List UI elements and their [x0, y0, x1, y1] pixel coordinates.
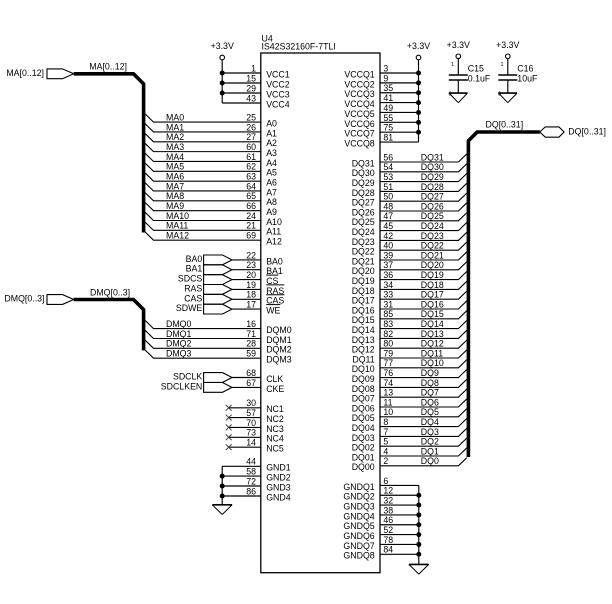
- svg-text:SDWE: SDWE: [176, 303, 203, 313]
- svg-text:IS42S32160F-7TLI: IS42S32160F-7TLI: [262, 42, 336, 52]
- svg-text:59: 59: [246, 349, 256, 359]
- svg-text:30: 30: [246, 398, 256, 408]
- pin 1 VCC1 wire: [220, 63, 290, 79]
- pin 59 DQM3 / net DMQ3 wire: [145, 349, 292, 365]
- svg-text:GNDQ2: GNDQ2: [343, 492, 374, 502]
- svg-text:DQ27: DQ27: [421, 192, 444, 202]
- svg-text:MA[0..12]: MA[0..12]: [89, 61, 127, 71]
- svg-text:MA[0..12]: MA[0..12]: [6, 68, 44, 78]
- svg-text:A11: A11: [266, 227, 281, 237]
- svg-text:DMQ[0..3]: DMQ[0..3]: [4, 294, 44, 304]
- power +3.3V symbol (C16): [496, 40, 519, 59]
- svg-text:DQ4: DQ4: [421, 417, 439, 427]
- svg-text:VCCQ5: VCCQ5: [344, 109, 374, 119]
- svg-text:A12: A12: [266, 237, 282, 247]
- pin 31 DQ16 / net DQ16 wire: [352, 299, 467, 315]
- ground symbol (GNDQ pins): [409, 564, 429, 574]
- svg-text:DQM0: DQM0: [266, 325, 292, 335]
- bus label DQ[0..31]: [486, 119, 524, 129]
- pin 81 VCCQ8 wire: [344, 132, 418, 148]
- svg-text:46: 46: [383, 515, 393, 525]
- svg-text:MA10: MA10: [166, 211, 189, 221]
- pin 11 DQ06 / net DQ6 wire: [352, 397, 467, 413]
- pin 34 DQ18 / net DQ18 wire: [352, 280, 467, 296]
- svg-text:47: 47: [383, 211, 393, 221]
- svg-text:DQ29: DQ29: [421, 172, 444, 182]
- svg-text:A3: A3: [266, 148, 277, 158]
- pin 43 VCC4 wire: [222, 93, 290, 109]
- pin 26 A1 / net MA1 wire: [145, 122, 277, 138]
- svg-text:A2: A2: [266, 138, 277, 148]
- pin 32 GNDQ3 wire: [343, 495, 421, 511]
- svg-text:DQ18: DQ18: [421, 280, 444, 290]
- pin 10 DQ05 / net DQ5 wire: [352, 407, 467, 423]
- svg-text:DQ23: DQ23: [352, 237, 375, 247]
- svg-text:39: 39: [383, 250, 393, 260]
- svg-text:38: 38: [383, 505, 393, 515]
- svg-text:85: 85: [383, 309, 393, 319]
- svg-text:5: 5: [383, 437, 388, 447]
- svg-text:24: 24: [246, 211, 256, 221]
- svg-text:DMQ1: DMQ1: [166, 329, 192, 339]
- bus DMQ[0..3] thick wire: [74, 300, 144, 351]
- svg-text:DQ26: DQ26: [352, 207, 375, 217]
- wire GND vertical junction: [221, 466, 223, 505]
- svg-text:56: 56: [383, 152, 393, 162]
- svg-text:49: 49: [383, 103, 393, 113]
- svg-text:70: 70: [246, 418, 256, 428]
- svg-text:A7: A7: [266, 187, 277, 197]
- svg-text:A6: A6: [266, 178, 277, 188]
- svg-text:A1: A1: [266, 128, 277, 138]
- svg-text:DQ[0..31]: DQ[0..31]: [486, 119, 524, 129]
- svg-text:34: 34: [383, 280, 393, 290]
- pin 23 BA1 / net BA1 tag and wire: [186, 260, 283, 276]
- svg-text:NC2: NC2: [266, 414, 284, 424]
- svg-text:GND3: GND3: [266, 482, 291, 492]
- svg-text:DQM3: DQM3: [266, 355, 292, 365]
- svg-text:54: 54: [383, 162, 393, 172]
- svg-text:68: 68: [246, 368, 256, 378]
- pin 25 A0 / net MA0 wire: [145, 113, 277, 129]
- svg-text:10: 10: [383, 407, 393, 417]
- svg-text:DQ1: DQ1: [421, 446, 439, 456]
- pin 63 A6 / net MA6 wire: [145, 172, 277, 188]
- svg-text:A8: A8: [266, 197, 277, 207]
- svg-text:MA4: MA4: [166, 152, 184, 162]
- svg-text:DQ18: DQ18: [352, 286, 375, 296]
- svg-text:NC1: NC1: [266, 404, 284, 414]
- svg-text:DQ0: DQ0: [421, 456, 439, 466]
- pin 13 DQ07 / net DQ7 wire: [352, 388, 467, 404]
- svg-text:GNDQ7: GNDQ7: [343, 541, 374, 551]
- svg-text:44: 44: [246, 457, 256, 467]
- svg-text:MA1: MA1: [166, 122, 184, 132]
- svg-text:VCC3: VCC3: [266, 89, 290, 99]
- pin 73 NC4 wire with no-connect X: [226, 428, 284, 444]
- svg-text:DQ20: DQ20: [421, 260, 444, 270]
- svg-text:11: 11: [383, 397, 392, 407]
- svg-text:57: 57: [246, 408, 256, 418]
- svg-text:DQ19: DQ19: [421, 270, 444, 280]
- svg-text:84: 84: [383, 545, 393, 555]
- svg-text:DQ15: DQ15: [352, 315, 375, 325]
- svg-text:C16: C16: [517, 64, 533, 74]
- svg-text:DQ17: DQ17: [352, 296, 375, 306]
- svg-text:67: 67: [246, 378, 256, 388]
- svg-text:DQ14: DQ14: [352, 325, 375, 335]
- svg-text:6: 6: [383, 476, 388, 486]
- svg-text:8: 8: [383, 417, 388, 427]
- svg-text:DMQ3: DMQ3: [166, 349, 192, 359]
- svg-text:DQM2: DQM2: [266, 345, 292, 355]
- svg-text:VCCQ6: VCCQ6: [344, 119, 374, 129]
- svg-text:12: 12: [383, 486, 393, 496]
- svg-text:VCCQ8: VCCQ8: [344, 138, 374, 148]
- svg-text:15: 15: [246, 73, 256, 83]
- bus tag MA[0..12] (source): [6, 68, 73, 79]
- svg-text:DQ04: DQ04: [352, 423, 375, 433]
- pin 60 A3 / net MA3 wire: [145, 142, 277, 158]
- svg-text:DQ19: DQ19: [352, 276, 375, 286]
- pin 85 DQ15 / net DQ15 wire: [352, 309, 467, 325]
- pin 16 DQM0 / net DMQ0 wire: [145, 319, 292, 335]
- svg-text:81: 81: [383, 132, 393, 142]
- svg-text:VCC2: VCC2: [266, 79, 290, 89]
- pin 30 NC1 wire with no-connect X: [226, 398, 284, 414]
- pin 48 DQ26 / net DQ26 wire: [352, 201, 467, 217]
- pin 17 WE / net SDWE tag and wire: [176, 300, 281, 316]
- svg-text:DQ02: DQ02: [352, 443, 375, 453]
- pin 3 VCCQ1 wire: [344, 63, 421, 79]
- svg-text:BA0: BA0: [266, 256, 283, 266]
- svg-text:A4: A4: [266, 158, 277, 168]
- svg-text:1: 1: [451, 62, 454, 68]
- svg-text:32: 32: [383, 495, 393, 505]
- svg-text:13: 13: [383, 388, 393, 398]
- pin 68 CLK / net SDCLK tag and wire: [173, 368, 283, 384]
- svg-text:36: 36: [383, 270, 393, 280]
- svg-text:55: 55: [383, 113, 393, 123]
- svg-text:14: 14: [246, 438, 256, 448]
- svg-text:A10: A10: [266, 217, 282, 227]
- svg-text:37: 37: [383, 260, 393, 270]
- pin 36 DQ19 / net DQ19 wire: [352, 270, 467, 286]
- svg-text:52: 52: [383, 525, 393, 535]
- svg-text:DQ13: DQ13: [352, 335, 375, 345]
- svg-text:CAS: CAS: [184, 293, 202, 303]
- svg-text:51: 51: [383, 182, 393, 192]
- svg-text:DQ21: DQ21: [352, 256, 375, 266]
- svg-text:75: 75: [383, 123, 393, 133]
- pin 24 A10 / net MA10 wire: [145, 211, 282, 227]
- pin 38 GNDQ4 wire: [343, 505, 421, 521]
- svg-text:80: 80: [383, 339, 393, 349]
- svg-text:23: 23: [246, 260, 256, 270]
- svg-text:DQ24: DQ24: [352, 227, 375, 237]
- svg-text:DQ3: DQ3: [421, 427, 439, 437]
- svg-text:17: 17: [246, 300, 256, 310]
- svg-text:18: 18: [246, 290, 256, 300]
- svg-text:GNDQ8: GNDQ8: [343, 551, 374, 561]
- pin 41 VCCQ4 wire: [344, 93, 421, 109]
- svg-text:DQ26: DQ26: [421, 201, 444, 211]
- capacitor C15 0.1uF: [449, 59, 491, 94]
- svg-text:45: 45: [383, 221, 393, 231]
- pin 80 DQ12 / net DQ12 wire: [352, 339, 467, 355]
- svg-text:60: 60: [246, 142, 256, 152]
- pin 86 GND4 wire: [220, 486, 291, 502]
- svg-text:DQ07: DQ07: [352, 394, 375, 404]
- power +3.3V symbol (VCC): [211, 41, 234, 60]
- svg-text:+3.3V: +3.3V: [407, 41, 430, 51]
- svg-text:DQ21: DQ21: [421, 250, 444, 260]
- svg-text:DQ7: DQ7: [421, 388, 439, 398]
- pin 39 DQ21 / net DQ21 wire: [352, 250, 467, 266]
- svg-text:DQ10: DQ10: [421, 358, 444, 368]
- svg-text:73: 73: [246, 428, 256, 438]
- svg-text:DQ31: DQ31: [352, 158, 375, 168]
- pin 72 GND3 wire: [220, 476, 291, 492]
- svg-text:86: 86: [246, 486, 256, 496]
- svg-text:GNDQ3: GNDQ3: [343, 501, 374, 511]
- svg-text:27: 27: [246, 132, 256, 142]
- svg-text:0.1uF: 0.1uF: [468, 73, 491, 83]
- pin 40 DQ22 / net DQ22 wire: [352, 241, 467, 257]
- wire +3.3V vertical to VCCQ pins: [418, 60, 420, 142]
- svg-text:CLK: CLK: [266, 374, 283, 384]
- pin 55 VCCQ6 wire: [344, 113, 421, 129]
- power +3.3V symbol (VCCQ): [407, 41, 430, 60]
- pin 47 DQ25 / net DQ25 wire: [352, 211, 467, 227]
- svg-text:10uF: 10uF: [517, 73, 538, 83]
- svg-text:VCCQ7: VCCQ7: [344, 129, 374, 139]
- svg-text:+3.3V: +3.3V: [211, 41, 234, 51]
- svg-text:DQ24: DQ24: [421, 221, 444, 231]
- svg-text:3: 3: [383, 63, 388, 73]
- svg-text:DQ16: DQ16: [352, 305, 375, 315]
- ground symbol (C16) / net 0: [498, 91, 517, 102]
- pin 12 GNDQ2 wire: [343, 486, 421, 502]
- pin 27 A2 / net MA2 wire: [145, 132, 277, 148]
- svg-text:43: 43: [246, 93, 256, 103]
- pin 69 A12 / net MA12 wire: [145, 231, 282, 247]
- svg-text:MA0: MA0: [166, 113, 184, 123]
- svg-text:DQ11: DQ11: [352, 354, 374, 364]
- svg-text:GND1: GND1: [266, 463, 291, 473]
- svg-text:DQ9: DQ9: [421, 368, 439, 378]
- svg-text:DQ11: DQ11: [421, 348, 443, 358]
- svg-text:DMQ2: DMQ2: [166, 339, 192, 349]
- pin 83 DQ14 / net DQ14 wire: [352, 319, 467, 335]
- svg-text:83: 83: [383, 319, 393, 329]
- svg-text:+3.3V: +3.3V: [447, 40, 470, 50]
- svg-text:DQ05: DQ05: [352, 413, 375, 423]
- svg-text:DQ06: DQ06: [352, 403, 375, 413]
- svg-text:DQ5: DQ5: [421, 407, 439, 417]
- svg-text:26: 26: [246, 122, 256, 132]
- pin 77 DQ10 / net DQ10 wire: [352, 358, 467, 374]
- svg-text:MA3: MA3: [166, 142, 184, 152]
- svg-text:1: 1: [251, 63, 256, 73]
- svg-text:SDCS: SDCS: [178, 274, 203, 284]
- pin 9 VCCQ2 wire: [344, 73, 421, 89]
- pin 44 GND1 wire: [222, 457, 291, 473]
- svg-text:DQ15: DQ15: [421, 309, 444, 319]
- pin 35 VCCQ3 wire: [344, 83, 421, 99]
- svg-text:DQ6: DQ6: [421, 397, 439, 407]
- pin 8 DQ04 / net DQ4 wire: [352, 417, 467, 433]
- pin 50 DQ27 / net DQ27 wire: [352, 192, 467, 208]
- svg-text:GNDQ6: GNDQ6: [343, 531, 374, 541]
- svg-text:78: 78: [383, 535, 393, 545]
- pin 28 DQM2 / net DMQ2 wire: [145, 339, 292, 355]
- IC U4 IS42S32160F-7TLI body: [261, 34, 380, 573]
- svg-text:42: 42: [383, 231, 393, 241]
- svg-text:SDCLK: SDCLK: [173, 372, 202, 382]
- pin 4 DQ01 / net DQ1 wire: [352, 446, 467, 462]
- svg-text:VCCQ2: VCCQ2: [344, 79, 374, 89]
- svg-text:9: 9: [383, 73, 388, 83]
- pin 53 DQ29 / net DQ29 wire: [352, 172, 467, 188]
- svg-text:20: 20: [246, 270, 256, 280]
- svg-text:DQ16: DQ16: [421, 299, 444, 309]
- pin 51 DQ28 / net DQ28 wire: [352, 182, 467, 198]
- pin 18 CAS / net CAS tag and wire: [184, 290, 284, 306]
- pin 42 DQ23 / net DQ23 wire: [352, 231, 467, 247]
- svg-text:DQ09: DQ09: [352, 374, 375, 384]
- svg-text:DQ25: DQ25: [421, 211, 444, 221]
- pin 5 DQ02 / net DQ2 wire: [352, 437, 467, 453]
- svg-text:DQ01: DQ01: [352, 452, 375, 462]
- svg-text:76: 76: [383, 368, 393, 378]
- svg-text:DQ30: DQ30: [421, 162, 444, 172]
- svg-text:MA7: MA7: [166, 181, 184, 191]
- svg-text:33: 33: [383, 290, 393, 300]
- svg-text:DQ28: DQ28: [352, 188, 375, 198]
- svg-text:MA8: MA8: [166, 191, 184, 201]
- svg-text:DQ22: DQ22: [421, 241, 444, 251]
- svg-text:NC4: NC4: [266, 434, 284, 444]
- svg-text:RAS: RAS: [184, 283, 202, 293]
- pin 75 VCCQ7 wire: [344, 123, 421, 139]
- svg-text:63: 63: [246, 172, 256, 182]
- svg-text:DQ03: DQ03: [352, 433, 375, 443]
- svg-text:DQ12: DQ12: [352, 345, 375, 355]
- svg-text:BA0: BA0: [186, 254, 203, 264]
- svg-text:MA12: MA12: [166, 231, 189, 241]
- svg-text:71: 71: [246, 329, 256, 339]
- svg-text:NC5: NC5: [266, 444, 284, 454]
- svg-text:7: 7: [383, 427, 388, 437]
- svg-text:WE: WE: [266, 306, 280, 316]
- pin 67 CKE / net SDCLKEN tag and wire: [161, 378, 285, 394]
- pin 2 DQ00 / net DQ0 wire: [352, 456, 467, 472]
- pin 20 CS / net SDCS tag and wire: [178, 270, 279, 286]
- svg-text:DQ12: DQ12: [421, 339, 444, 349]
- svg-text:DQ17: DQ17: [421, 290, 444, 300]
- wire +3.3V vertical to VCC pins: [221, 60, 223, 103]
- svg-text:2: 2: [383, 456, 388, 466]
- pin 82 DQ13 / net DQ13 wire: [352, 329, 467, 345]
- ground symbol (GND pins): [212, 505, 232, 515]
- pin 29 VCC3 wire: [220, 83, 290, 99]
- svg-text:35: 35: [383, 83, 393, 93]
- svg-text:25: 25: [246, 113, 256, 123]
- svg-text:BA1: BA1: [186, 264, 203, 274]
- svg-text:DQ23: DQ23: [421, 231, 444, 241]
- svg-text:MA6: MA6: [166, 172, 184, 182]
- svg-text:SDCLKEN: SDCLKEN: [161, 381, 203, 391]
- svg-text:GND2: GND2: [266, 473, 291, 483]
- svg-text:50: 50: [383, 192, 393, 202]
- svg-text:0: 0: [498, 91, 501, 97]
- svg-text:53: 53: [383, 172, 393, 182]
- pin 46 GNDQ5 wire: [343, 515, 421, 531]
- svg-text:GNDQ5: GNDQ5: [343, 521, 374, 531]
- pin 7 DQ03 / net DQ3 wire: [352, 427, 467, 443]
- svg-text:A9: A9: [266, 207, 277, 217]
- svg-text:79: 79: [383, 348, 393, 358]
- svg-text:DQ29: DQ29: [352, 178, 375, 188]
- svg-text:A5: A5: [266, 168, 277, 178]
- svg-text:DQ27: DQ27: [352, 198, 375, 208]
- svg-text:MA2: MA2: [166, 132, 184, 142]
- capacitor C16 10uF: [498, 59, 538, 94]
- pin 37 DQ20 / net DQ20 wire: [352, 260, 467, 276]
- pin 49 VCCQ5 wire: [344, 103, 421, 119]
- svg-text:28: 28: [246, 339, 256, 349]
- svg-text:82: 82: [383, 329, 393, 339]
- pin 22 BA0 / net BA0 tag and wire: [186, 250, 283, 266]
- svg-text:DQ8: DQ8: [421, 378, 439, 388]
- power +3.3V symbol (C15): [447, 40, 470, 59]
- pin 71 DQM1 / net DMQ1 wire: [145, 329, 292, 345]
- pin 21 A11 / net MA11 wire: [145, 221, 281, 237]
- svg-text:DQ28: DQ28: [421, 182, 444, 192]
- svg-text:61: 61: [246, 152, 256, 162]
- pin 6 GNDQ1 wire: [343, 476, 418, 492]
- pin 76 DQ09 / net DQ9 wire: [352, 368, 467, 384]
- svg-text:CKE: CKE: [266, 384, 284, 394]
- bus DQ[0..31] thick wire: [468, 132, 539, 457]
- svg-text:58: 58: [246, 467, 256, 477]
- svg-text:65: 65: [246, 191, 256, 201]
- svg-text:4: 4: [383, 446, 388, 456]
- pin 57 NC2 wire with no-connect X: [226, 408, 284, 424]
- svg-text:VCCQ4: VCCQ4: [344, 99, 374, 109]
- pin 15 VCC2 wire: [220, 73, 290, 89]
- pin 56 DQ31 / net DQ31 wire: [352, 152, 467, 168]
- svg-text:DQ2: DQ2: [421, 437, 439, 447]
- svg-text:DQ13: DQ13: [421, 329, 444, 339]
- svg-text:MA5: MA5: [166, 162, 184, 172]
- svg-text:DQ22: DQ22: [352, 247, 375, 257]
- svg-text:VCC4: VCC4: [266, 99, 290, 109]
- svg-text:GNDQ4: GNDQ4: [343, 511, 374, 521]
- svg-text:A0: A0: [266, 119, 277, 129]
- pin 79 DQ11 / net DQ11 wire: [352, 348, 467, 364]
- bus tag DMQ[0..3] (source): [4, 294, 73, 305]
- svg-text:DQ14: DQ14: [421, 319, 444, 329]
- svg-text:62: 62: [246, 162, 256, 172]
- svg-text:GNDQ1: GNDQ1: [343, 482, 374, 492]
- svg-text:DQ25: DQ25: [352, 217, 375, 227]
- svg-text:MA9: MA9: [166, 201, 184, 211]
- svg-text:DQ[0..31]: DQ[0..31]: [568, 127, 606, 137]
- svg-text:1: 1: [501, 62, 504, 68]
- pin 78 GNDQ7 wire: [343, 535, 421, 551]
